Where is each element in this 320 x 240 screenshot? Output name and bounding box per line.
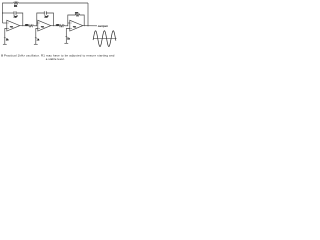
label R1 value — [14, 5, 18, 8]
label stub3 value — [67, 37, 71, 40]
wire U2 noninverting to ground — [36, 29, 38, 45]
wire stage3 feedback branch — [68, 15, 75, 26]
wire stub1 tick — [4, 37, 6, 39]
op-amp U3 — [70, 20, 83, 31]
wire U1 noninverting to ground — [5, 29, 7, 45]
label R3 value — [56, 24, 61, 26]
op-amp minus mark — [8, 22, 9, 24]
junction C2 output — [52, 24, 55, 27]
wire U2 output — [51, 25, 59, 27]
op-amp plus mark — [71, 28, 72, 30]
op-amp plus mark — [8, 28, 9, 30]
op-amp U1 — [7, 20, 20, 31]
wire U1 output — [20, 25, 28, 27]
op-amp minus mark — [39, 22, 40, 24]
op-amp U2 — [38, 20, 51, 31]
svg-text:2µF: 2µF — [13, 16, 18, 19]
label stub2 value — [37, 38, 41, 41]
wire stage1 cap to output — [16, 13, 23, 26]
svg-text:2µF: 2µF — [44, 16, 49, 19]
junction R4 output — [83, 24, 86, 27]
wire U3 noninverting to ground — [66, 29, 70, 44]
label R4 value — [75, 12, 80, 14]
resistor R2 — [28, 25, 34, 27]
label U3 device — [73, 25, 77, 28]
sine waveform — [93, 31, 116, 47]
wire R2 to U2 input node — [34, 25, 37, 27]
label U2 device — [41, 25, 45, 28]
ground G3 — [64, 42, 68, 44]
wire stage1 cap branch — [3, 12, 15, 14]
wire stage2 cap to output — [46, 13, 53, 26]
label C1 value — [13, 15, 18, 18]
wire stub3 tick — [65, 36, 67, 38]
wire stage2 cap branch — [37, 13, 45, 26]
capacitor C1 — [14, 11, 16, 14]
wire U3 output to output terminal — [83, 25, 97, 27]
label stub1 value — [6, 38, 10, 41]
sine wave axis — [93, 38, 117, 40]
wire stub2 tick — [35, 37, 37, 39]
op-amp plus mark — [39, 28, 40, 30]
resistor R4 — [75, 14, 80, 16]
wire U2 inverting input stub — [37, 22, 38, 24]
resistor R1 — [14, 2, 19, 4]
resistor R3 — [59, 25, 65, 27]
label output — [98, 24, 108, 28]
op-amp minus mark — [71, 22, 72, 24]
label U1 device — [10, 25, 14, 28]
wire U3 inverting input stub — [68, 22, 70, 24]
svg-text:output: output — [98, 24, 108, 28]
wire feedback vertical — [87, 3, 89, 26]
svg-text:a stable level.: a stable level. — [46, 57, 65, 61]
ground G2 — [34, 43, 38, 45]
label R2 value — [25, 24, 30, 26]
junction U2 input node — [35, 24, 38, 27]
junction U3 input node — [66, 24, 69, 27]
junction C1 output — [21, 24, 24, 27]
capacitor C2 — [44, 11, 46, 14]
wire left rail — [3, 3, 14, 23]
wire R4 to output — [80, 15, 84, 26]
wire U1 inverting input stub — [3, 22, 7, 24]
wire R3 to U3 input node — [65, 25, 68, 27]
label C2 value — [44, 15, 49, 18]
junction left rail cap branch — [1, 12, 4, 15]
junction output node — [87, 25, 88, 26]
ground G1 — [3, 43, 7, 45]
wire top rail — [19, 2, 89, 4]
